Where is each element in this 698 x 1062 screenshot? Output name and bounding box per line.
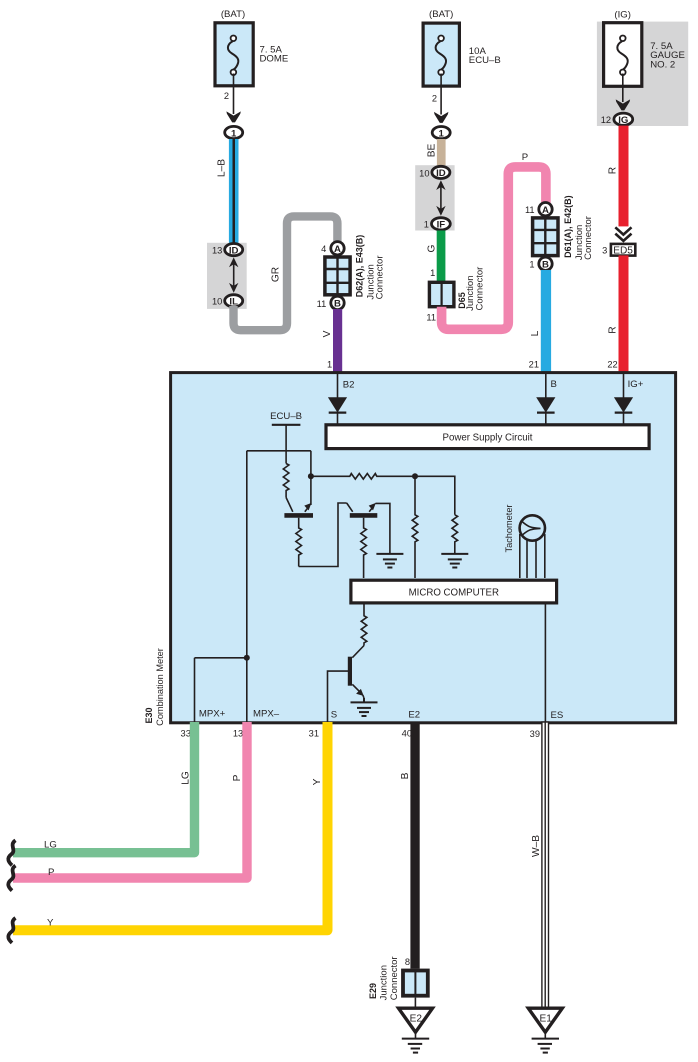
fuse GAUGE NO.2 7.5A	[604, 9, 685, 86]
svg-text:ID: ID	[229, 245, 239, 256]
svg-text:ES: ES	[551, 710, 564, 721]
svg-text:Connector: Connector	[389, 956, 400, 1000]
transistor Q3	[350, 646, 364, 699]
svg-text:P: P	[48, 867, 54, 878]
ground E1	[528, 1008, 562, 1052]
svg-text:V: V	[322, 330, 333, 337]
svg-text:1: 1	[424, 220, 429, 230]
wire R (red) upper	[607, 126, 628, 227]
svg-text:E2: E2	[410, 1013, 423, 1024]
svg-text:DOME: DOME	[260, 54, 289, 65]
wire Q3 base to S pin	[328, 671, 350, 722]
junction connector E29	[368, 956, 428, 1000]
resistor R4 (horizontal)	[311, 474, 415, 480]
svg-text:1: 1	[529, 260, 534, 270]
svg-text:IF: IF	[437, 220, 446, 231]
svg-text:MICRO COMPUTER: MICRO COMPUTER	[409, 587, 499, 598]
resistor R6	[452, 515, 458, 554]
connector ED5	[602, 227, 635, 256]
resistor R7 (below micro computer)	[361, 604, 367, 646]
wire fuse ECU-B to connector 1	[432, 74, 450, 140]
svg-text:E1: E1	[540, 1013, 553, 1024]
break symbol Y	[8, 918, 15, 943]
svg-text:B: B	[551, 379, 557, 390]
svg-text:Y: Y	[47, 917, 54, 928]
svg-text:21: 21	[529, 359, 539, 369]
svg-text:Connector: Connector	[583, 216, 594, 260]
svg-text:31: 31	[309, 729, 319, 739]
svg-text:A: A	[334, 244, 341, 255]
wire L (light blue)	[529, 270, 551, 372]
svg-text:2: 2	[224, 91, 229, 101]
svg-text:ED5: ED5	[613, 245, 633, 256]
transistor Q2	[347, 503, 390, 554]
svg-text:11: 11	[317, 299, 327, 309]
wire GR (gray)	[234, 216, 338, 330]
wire fuse DOME to connector 1	[224, 74, 243, 140]
wire Y (yellow)	[13, 722, 328, 930]
svg-text:R: R	[607, 326, 618, 333]
svg-text:8: 8	[405, 957, 410, 967]
svg-text:3: 3	[602, 245, 607, 255]
wire fuse GAUGE to connector IG	[601, 74, 633, 126]
diode at IG+	[614, 374, 633, 424]
svg-text:10: 10	[419, 168, 429, 178]
break symbol P	[8, 866, 15, 891]
svg-text:D62(A), E43(B): D62(A), E43(B)	[354, 235, 364, 298]
diode at B2	[328, 374, 347, 424]
svg-text:MPX+: MPX+	[199, 709, 226, 720]
svg-text:1: 1	[430, 268, 435, 278]
svg-text:IG+: IG+	[628, 379, 644, 390]
junction connector D62(A), E43(B)	[317, 235, 386, 310]
gray block (IG) already-shown region	[597, 22, 688, 126]
svg-text:L: L	[530, 330, 541, 336]
svg-text:B2: B2	[343, 379, 355, 390]
svg-text:IL: IL	[229, 297, 238, 308]
wire ES line	[544, 604, 546, 723]
break symbol LG	[8, 840, 15, 865]
wire G (green)	[426, 231, 445, 283]
svg-text:B: B	[542, 260, 549, 271]
svg-text:P: P	[522, 152, 528, 163]
svg-text:13: 13	[212, 246, 222, 256]
svg-text:11: 11	[525, 205, 535, 215]
svg-text:39: 39	[530, 729, 540, 739]
fuse DOME 7.5A	[215, 9, 288, 86]
svg-text:IG: IG	[618, 115, 628, 126]
wire V (violet)	[322, 309, 342, 373]
svg-text:S: S	[331, 710, 337, 721]
svg-text:P: P	[232, 774, 243, 781]
svg-text:Power Supply Circuit: Power Supply Circuit	[443, 433, 533, 444]
svg-text:R: R	[607, 167, 618, 174]
ground G2	[441, 554, 468, 568]
transistor Q1	[284, 478, 313, 515]
power supply circuit box	[326, 425, 649, 449]
wire P (pink)	[13, 722, 247, 878]
junction connector D61(A), E42(B)	[525, 195, 594, 270]
svg-text:Y: Y	[312, 778, 323, 785]
svg-text:G: G	[426, 244, 437, 252]
wire L-B (blue-black)	[216, 139, 238, 244]
wire BE (beige)	[426, 139, 445, 167]
junction dot MPX	[244, 655, 250, 661]
svg-text:1: 1	[327, 359, 332, 369]
junction node B	[412, 473, 418, 479]
svg-text:(BAT): (BAT)	[429, 9, 453, 20]
svg-text:MPX–: MPX–	[253, 709, 280, 720]
svg-text:L–B: L–B	[216, 159, 227, 177]
wire node A	[308, 451, 314, 480]
svg-text:1: 1	[439, 128, 445, 139]
svg-text:11: 11	[426, 313, 436, 323]
svg-text:22: 22	[607, 359, 617, 369]
svg-text:W–B: W–B	[531, 835, 542, 857]
svg-text:LG: LG	[181, 771, 192, 785]
svg-text:B: B	[334, 299, 341, 310]
wire node B right	[415, 476, 455, 515]
svg-text:13: 13	[233, 729, 243, 739]
wire LG (light green)	[13, 722, 195, 853]
svg-text:Combination Meter: Combination Meter	[155, 648, 165, 726]
svg-text:4: 4	[321, 244, 326, 254]
resistor R3 (Q2 base)	[361, 518, 367, 578]
ground G1	[376, 554, 403, 568]
svg-text:ECU–B: ECU–B	[469, 55, 501, 66]
wire R (red) lower	[607, 255, 628, 371]
svg-text:(BAT): (BAT)	[221, 9, 245, 20]
svg-text:Connector: Connector	[375, 255, 386, 299]
junction connector D65	[426, 267, 485, 323]
svg-text:A: A	[542, 205, 549, 216]
ground G3	[351, 698, 378, 716]
svg-text:12: 12	[601, 115, 611, 125]
svg-text:E29: E29	[368, 983, 378, 999]
svg-text:LG: LG	[44, 839, 57, 850]
svg-text:NO. 2: NO. 2	[650, 59, 675, 70]
tachometer gauge	[504, 505, 545, 579]
ECU-B power tap	[270, 411, 302, 464]
wire P (pink)	[442, 152, 546, 329]
svg-text:E30: E30	[144, 707, 154, 723]
wire R2 to Q2 collector	[299, 503, 347, 567]
ground E2	[399, 998, 433, 1053]
svg-text:1: 1	[231, 128, 237, 139]
svg-text:BE: BE	[426, 144, 437, 158]
wire branch to MPX pins	[195, 451, 311, 722]
connector ID/IL gray block	[207, 243, 247, 309]
svg-text:(IG): (IG)	[614, 9, 631, 20]
svg-text:2: 2	[432, 93, 437, 103]
svg-text:ID: ID	[436, 168, 446, 179]
svg-text:B: B	[400, 772, 411, 779]
svg-text:E2: E2	[408, 710, 420, 721]
connector ID/IF gray block	[415, 165, 454, 230]
svg-text:GR: GR	[271, 267, 282, 282]
combination meter E30 box	[144, 373, 676, 726]
svg-text:D61(A), E42(B): D61(A), E42(B)	[563, 195, 573, 258]
diode at B	[536, 374, 555, 424]
svg-text:10: 10	[212, 297, 222, 307]
micro computer box	[351, 580, 557, 603]
wire W-B (white-black)	[531, 722, 549, 1008]
svg-text:ECU–B: ECU–B	[270, 411, 302, 422]
resistor R1	[283, 464, 289, 498]
svg-text:Tachometer: Tachometer	[504, 505, 514, 553]
fuse ECU-B 10A	[423, 9, 501, 86]
resistor R2 (Q1 emitter)	[296, 518, 302, 567]
resistor R5	[412, 476, 418, 578]
svg-text:33: 33	[181, 729, 191, 739]
wire B (black)	[400, 722, 420, 969]
svg-text:Connector: Connector	[474, 267, 485, 311]
